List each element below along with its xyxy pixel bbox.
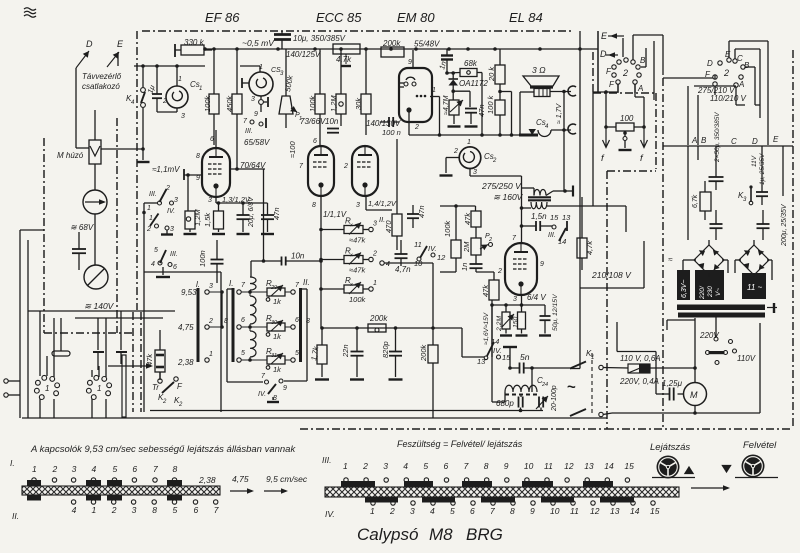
svg-text:1/1,1V: 1/1,1V xyxy=(323,210,347,219)
svg-text:3: 3 xyxy=(251,96,255,103)
svg-text:2: 2 xyxy=(414,124,419,131)
svg-text:1: 1 xyxy=(147,205,151,212)
svg-text:3: 3 xyxy=(373,221,377,228)
svg-text:3: 3 xyxy=(181,113,185,120)
svg-text:2: 2 xyxy=(343,163,348,170)
svg-text:Lejátszás: Lejátszás xyxy=(650,442,690,453)
svg-text:1n: 1n xyxy=(460,263,469,271)
svg-text:D: D xyxy=(600,49,607,59)
svg-text:3: 3 xyxy=(410,506,415,516)
svg-text:4: 4 xyxy=(92,464,97,474)
svg-text:5: 5 xyxy=(423,461,428,471)
svg-text:II.: II. xyxy=(303,278,310,287)
svg-text:110/210 V: 110/210 V xyxy=(710,94,747,103)
svg-text:47k: 47k xyxy=(463,212,472,225)
svg-text:II.: II. xyxy=(12,511,19,521)
svg-text:10: 10 xyxy=(524,461,534,471)
svg-text:1: 1 xyxy=(432,87,436,94)
svg-text:≋ 160V: ≋ 160V xyxy=(493,192,524,202)
svg-text:6: 6 xyxy=(313,138,317,145)
svg-text:E: E xyxy=(117,39,124,49)
svg-text:4,7k: 4,7k xyxy=(585,240,594,255)
svg-text:11 ~: 11 ~ xyxy=(747,283,763,292)
svg-text:7: 7 xyxy=(490,506,495,516)
svg-text:1,5n: 1,5n xyxy=(531,212,547,221)
svg-text:4: 4 xyxy=(430,506,435,516)
svg-text:M: M xyxy=(690,390,698,400)
svg-text:10n: 10n xyxy=(291,252,305,261)
svg-text:150: 150 xyxy=(513,316,520,328)
svg-text:1: 1 xyxy=(467,139,471,146)
svg-text:3: 3 xyxy=(473,169,477,176)
svg-text:4: 4 xyxy=(386,261,390,268)
svg-text:2,38: 2,38 xyxy=(198,475,216,485)
svg-text:8: 8 xyxy=(196,153,200,160)
svg-text:1: 1 xyxy=(32,464,37,474)
svg-text:11: 11 xyxy=(544,461,553,471)
svg-text:1: 1 xyxy=(45,384,49,393)
svg-text:Calypsó: Calypsó xyxy=(357,525,418,544)
svg-text:ECC 85: ECC 85 xyxy=(316,10,362,25)
svg-text:2,2M: 2,2M xyxy=(496,316,503,332)
svg-text:2: 2 xyxy=(208,318,213,325)
svg-text:330 k: 330 k xyxy=(184,38,205,47)
svg-text:Feszültség = Felvétel/ lejátsz: Feszültség = Felvétel/ lejátszás xyxy=(397,439,523,449)
svg-text:470: 470 xyxy=(384,220,393,233)
svg-text:13: 13 xyxy=(610,506,620,516)
svg-text:IV.: IV. xyxy=(428,244,437,253)
svg-text:A: A xyxy=(738,80,744,89)
svg-text:IV.: IV. xyxy=(493,346,502,355)
svg-text:EM 80: EM 80 xyxy=(397,10,435,25)
svg-text:~: ~ xyxy=(567,379,576,396)
svg-text:30k: 30k xyxy=(354,97,363,110)
svg-text:EF 86: EF 86 xyxy=(205,10,240,25)
svg-text:6: 6 xyxy=(173,264,177,271)
svg-text:1: 1 xyxy=(97,384,101,393)
svg-text:4,75: 4,75 xyxy=(232,474,249,484)
svg-text:9: 9 xyxy=(408,59,412,66)
svg-text:10: 10 xyxy=(414,259,423,268)
svg-text:3: 3 xyxy=(132,505,137,515)
svg-text:Felvétel: Felvétel xyxy=(743,440,777,451)
svg-text:10n: 10n xyxy=(325,117,339,126)
svg-text:100 k: 100 k xyxy=(486,94,495,114)
svg-text:B: B xyxy=(701,136,707,145)
svg-text:8: 8 xyxy=(173,464,178,474)
svg-text:2: 2 xyxy=(497,268,502,275)
svg-text:9: 9 xyxy=(504,461,509,471)
svg-text:6/4 V: 6/4 V xyxy=(527,293,546,302)
svg-text:5: 5 xyxy=(113,464,118,474)
svg-text:2: 2 xyxy=(146,226,151,233)
svg-text:5: 5 xyxy=(295,350,299,357)
svg-text:15: 15 xyxy=(650,506,660,516)
svg-text:220/: 220/ xyxy=(699,285,706,300)
svg-text:100k: 100k xyxy=(443,219,452,237)
svg-text:680p: 680p xyxy=(496,399,514,408)
svg-text:csatlakozó: csatlakozó xyxy=(82,82,120,91)
svg-text:C: C xyxy=(737,54,743,63)
svg-text:2: 2 xyxy=(389,506,395,516)
svg-text:D: D xyxy=(707,59,713,68)
svg-text:100k: 100k xyxy=(349,295,367,304)
svg-text:2: 2 xyxy=(162,399,167,405)
svg-text:≈1,1mV: ≈1,1mV xyxy=(152,165,180,174)
svg-text:65/58V: 65/58V xyxy=(244,138,270,147)
svg-text:6: 6 xyxy=(470,506,475,516)
svg-text:l.: l. xyxy=(196,280,200,289)
svg-text:E: E xyxy=(601,31,608,41)
svg-text:220V, 0,4A: 220V, 0,4A xyxy=(619,377,659,386)
svg-text:I.: I. xyxy=(10,458,15,468)
svg-text:≈100: ≈100 xyxy=(288,141,297,158)
svg-text:47n: 47n xyxy=(272,207,281,220)
svg-text:≈1,6V≈15V: ≈1,6V≈15V xyxy=(483,312,490,345)
svg-text:200k: 200k xyxy=(419,343,428,362)
svg-text:15: 15 xyxy=(550,213,559,222)
svg-text:12: 12 xyxy=(564,461,574,471)
svg-text:100: 100 xyxy=(620,114,634,123)
svg-text:4,75: 4,75 xyxy=(178,323,194,332)
svg-text:4: 4 xyxy=(403,461,408,471)
svg-text:6: 6 xyxy=(241,317,245,324)
svg-text:8: 8 xyxy=(484,461,489,471)
svg-text:5: 5 xyxy=(173,505,178,515)
svg-text:14: 14 xyxy=(558,237,566,246)
svg-text:100n: 100n xyxy=(198,250,207,267)
svg-text:III.: III. xyxy=(245,128,253,135)
svg-text:200k: 200k xyxy=(369,314,388,323)
svg-text:7: 7 xyxy=(464,461,469,471)
svg-text:3: 3 xyxy=(208,197,212,204)
svg-text:2: 2 xyxy=(111,505,117,515)
svg-text:Távvezérlő: Távvezérlő xyxy=(82,72,122,81)
svg-text:10μ, 350/385V: 10μ, 350/385V xyxy=(293,34,346,43)
svg-text:E: E xyxy=(773,135,779,144)
svg-text:100k: 100k xyxy=(308,94,317,112)
svg-text:200k: 200k xyxy=(382,39,401,48)
svg-text:13: 13 xyxy=(584,461,594,471)
svg-text:275/250 V: 275/250 V xyxy=(481,181,522,191)
svg-text:13: 13 xyxy=(562,213,571,222)
svg-text:1,25μ: 1,25μ xyxy=(662,379,683,388)
svg-text:1: 1 xyxy=(209,351,213,358)
svg-text:6: 6 xyxy=(444,461,449,471)
svg-text:M8: M8 xyxy=(429,525,453,544)
svg-text:210/108 V: 210/108 V xyxy=(591,270,632,280)
svg-text:≈47k: ≈47k xyxy=(349,266,366,275)
svg-text:9,53: 9,53 xyxy=(181,288,197,297)
svg-text:140/125V: 140/125V xyxy=(286,50,321,59)
svg-text:4,7k: 4,7k xyxy=(336,55,352,64)
svg-text:1k: 1k xyxy=(273,365,282,374)
svg-text:68k: 68k xyxy=(464,59,478,68)
svg-text:9,5 cm/sec: 9,5 cm/sec xyxy=(266,474,308,484)
svg-text:9: 9 xyxy=(530,506,535,516)
svg-text:A: A xyxy=(637,84,643,93)
svg-text:15: 15 xyxy=(624,461,634,471)
svg-text:2: 2 xyxy=(622,68,628,78)
svg-text:20μ, 6/8V: 20μ, 6/8V xyxy=(248,196,255,228)
svg-text:B: B xyxy=(640,56,646,65)
svg-text:BRG: BRG xyxy=(466,525,503,544)
svg-text:5n: 5n xyxy=(520,352,530,362)
svg-text:1,4/1,2V: 1,4/1,2V xyxy=(368,199,397,208)
svg-text:D: D xyxy=(752,137,758,146)
svg-text:3: 3 xyxy=(356,202,360,209)
svg-text:11: 11 xyxy=(414,240,422,249)
svg-text:9: 9 xyxy=(254,111,258,118)
svg-text:EL 84: EL 84 xyxy=(509,10,543,25)
svg-text:5: 5 xyxy=(154,247,158,254)
svg-text:2: 2 xyxy=(162,98,167,105)
svg-text:1,2M: 1,2M xyxy=(193,209,202,226)
svg-text:III.: III. xyxy=(548,232,556,239)
svg-text:3: 3 xyxy=(383,461,388,471)
svg-text:IV.: IV. xyxy=(258,391,266,398)
svg-text:1k: 1k xyxy=(273,332,282,341)
svg-text:6: 6 xyxy=(194,505,199,515)
svg-text:M húzó: M húzó xyxy=(57,151,84,160)
svg-text:8: 8 xyxy=(510,506,515,516)
svg-text:4: 4 xyxy=(72,505,77,515)
svg-text:110V: 110V xyxy=(737,354,756,363)
svg-text:1: 1 xyxy=(199,86,202,92)
svg-text:III.: III. xyxy=(149,191,157,198)
svg-text:6,3V~: 6,3V~ xyxy=(681,280,688,299)
svg-text:230: 230 xyxy=(707,286,714,298)
svg-text:4: 4 xyxy=(151,261,155,268)
svg-text:1: 1 xyxy=(373,280,377,287)
svg-text:2: 2 xyxy=(178,402,183,408)
svg-text:9: 9 xyxy=(283,385,287,392)
svg-text:III.: III. xyxy=(170,251,178,258)
svg-text:6: 6 xyxy=(132,464,137,474)
svg-text:IV.: IV. xyxy=(167,208,175,215)
svg-text:11: 11 xyxy=(570,506,579,516)
svg-text:12: 12 xyxy=(437,253,446,262)
svg-text:140/130V: 140/130V xyxy=(366,119,401,128)
svg-text:1: 1 xyxy=(370,506,375,516)
svg-text:4,7n: 4,7n xyxy=(395,265,411,274)
svg-text:200μ, 25/35V: 200μ, 25/35V xyxy=(781,203,788,247)
svg-text:11V: 11V xyxy=(751,155,758,167)
svg-text:6: 6 xyxy=(295,317,299,324)
svg-text:8: 8 xyxy=(152,505,157,515)
svg-text:6: 6 xyxy=(210,136,214,143)
svg-text:7: 7 xyxy=(153,464,158,474)
svg-text:A kapcsolók 9,53 cm/sec sebess: A kapcsolók 9,53 cm/sec sebességű lejáts… xyxy=(30,444,296,455)
svg-text:14: 14 xyxy=(630,506,640,516)
svg-text:1,5k: 1,5k xyxy=(203,212,212,227)
svg-text:Tr: Tr xyxy=(152,383,159,392)
svg-text:820p: 820p xyxy=(381,341,390,358)
svg-text:450k: 450k xyxy=(225,94,234,112)
svg-text:7: 7 xyxy=(214,505,219,515)
svg-text:2: 2 xyxy=(362,461,368,471)
svg-text:9: 9 xyxy=(196,175,200,182)
svg-text:≈ 1,7V: ≈ 1,7V xyxy=(556,102,563,124)
svg-text:3: 3 xyxy=(174,197,178,204)
svg-text:14: 14 xyxy=(604,461,614,471)
svg-text:5: 5 xyxy=(450,506,455,516)
svg-text:55/48V: 55/48V xyxy=(414,40,440,49)
svg-text:20 k: 20 k xyxy=(487,66,496,82)
svg-text:100k: 100k xyxy=(203,94,212,112)
svg-text:10: 10 xyxy=(550,506,560,516)
svg-text:24: 24 xyxy=(541,382,548,388)
svg-text:3: 3 xyxy=(72,464,77,474)
svg-text:100 n: 100 n xyxy=(382,128,401,137)
svg-text:≈4,7M: ≈4,7M xyxy=(443,95,450,115)
svg-text:D: D xyxy=(86,39,93,49)
svg-text:2: 2 xyxy=(723,68,729,78)
svg-text:9: 9 xyxy=(540,261,544,268)
svg-text:47n: 47n xyxy=(417,205,426,218)
svg-text:III.: III. xyxy=(322,455,331,465)
svg-text:A: A xyxy=(691,136,697,145)
svg-text:8: 8 xyxy=(312,202,316,209)
svg-text:I.: I. xyxy=(229,279,233,288)
svg-text:3 Ω: 3 Ω xyxy=(532,65,546,75)
svg-text:V~: V~ xyxy=(715,288,722,296)
svg-text:1: 1 xyxy=(591,355,594,361)
svg-text:50μ, 12/15V: 50μ, 12/15V xyxy=(552,293,559,331)
svg-text:22n: 22n xyxy=(341,344,350,358)
svg-text:12: 12 xyxy=(590,506,600,516)
svg-text:2: 2 xyxy=(492,158,497,164)
svg-text:1,2M: 1,2M xyxy=(329,95,338,112)
svg-text:≈: ≈ xyxy=(668,255,673,264)
svg-text:2: 2 xyxy=(52,464,58,474)
svg-text:1: 1 xyxy=(178,76,182,83)
svg-text:3: 3 xyxy=(170,226,174,233)
svg-text:C: C xyxy=(731,137,737,146)
svg-text:2: 2 xyxy=(372,251,377,258)
svg-text:5: 5 xyxy=(241,350,245,357)
svg-text:1: 1 xyxy=(343,461,348,471)
svg-text:~0,5 mV: ~0,5 mV xyxy=(242,38,275,48)
svg-text:6,7k: 6,7k xyxy=(692,194,699,208)
svg-text:1k: 1k xyxy=(273,297,282,306)
svg-text:≋ 140V: ≋ 140V xyxy=(84,301,115,311)
svg-text:1: 1 xyxy=(92,505,97,515)
svg-text:110 V, 0,6A: 110 V, 0,6A xyxy=(620,354,661,363)
svg-text:47k: 47k xyxy=(481,284,490,297)
svg-text:2M: 2M xyxy=(462,241,471,253)
svg-text:3: 3 xyxy=(513,296,517,303)
svg-text:2: 2 xyxy=(453,148,458,155)
svg-text:2×50μ, 350/385V: 2×50μ, 350/385V xyxy=(714,112,721,163)
svg-text:≋ 68V: ≋ 68V xyxy=(70,223,94,232)
svg-text:≈47k: ≈47k xyxy=(349,236,366,245)
svg-text:3: 3 xyxy=(209,283,213,290)
svg-text:73/66V: 73/66V xyxy=(300,117,326,126)
svg-text:OA1172: OA1172 xyxy=(459,79,488,88)
svg-text:20-100p: 20-100p xyxy=(551,385,558,412)
svg-text:2,38: 2,38 xyxy=(177,358,194,367)
svg-text:IV.: IV. xyxy=(325,509,335,519)
